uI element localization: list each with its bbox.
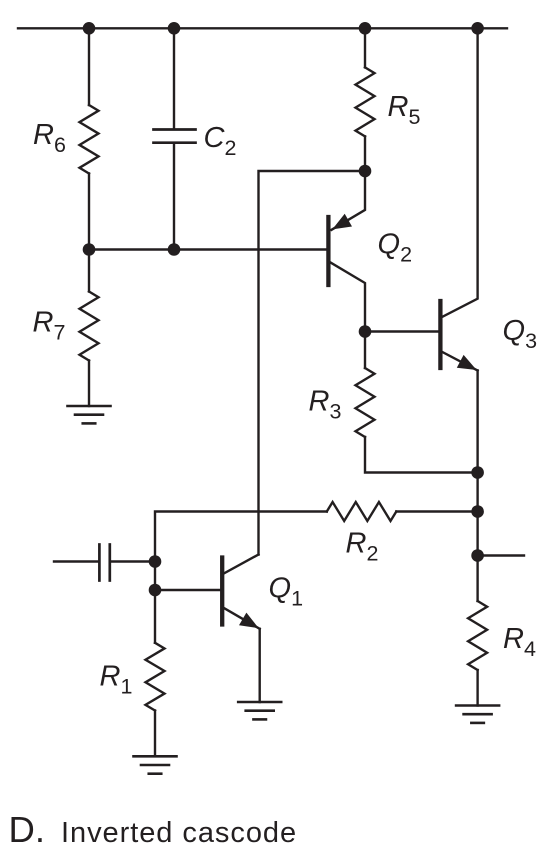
resistor R1 — [154, 590, 156, 643]
svg-text:D.: D. — [9, 809, 46, 850]
transistor Q2 (PNP) — [326, 217, 330, 285]
resistor R2 — [155, 512, 327, 562]
node input junction — [149, 555, 162, 568]
resistor R7 — [88, 250, 90, 292]
resistor R5 — [364, 28, 366, 67]
wire emitter node to R2 node — [476, 473, 478, 512]
wire R2 node to output node — [476, 512, 478, 556]
wire riser Q1 collector to R5 bottom — [259, 171, 366, 555]
wire rail to R6 — [88, 28, 90, 105]
capacitor input coupling — [54, 560, 98, 562]
wire R6 to base node — [88, 174, 90, 250]
capacitor C2 — [173, 28, 175, 128]
node C2-base junction — [168, 243, 181, 256]
resistor R3 — [364, 332, 366, 369]
node Q2 collector / Q3 base — [359, 325, 372, 338]
node R6-R7 junction — [83, 243, 96, 256]
ground R7 — [68, 405, 111, 408]
node Q1 base junction — [149, 584, 162, 597]
node R2-right junction — [471, 505, 484, 518]
node output junction — [471, 549, 484, 562]
ground Q1 emitter — [238, 701, 281, 704]
svg-text:Inverted cascode: Inverted cascode — [61, 817, 297, 849]
wire output stub — [478, 554, 524, 556]
node rail-R5 junction — [359, 22, 372, 35]
wire top supply rail — [18, 27, 507, 29]
resistor R4 — [476, 556, 478, 602]
transistor Q3 (NPN) — [438, 301, 442, 368]
resistor R6 — [80, 105, 99, 174]
node rail-right junction — [471, 22, 484, 35]
node R5-emitter junction — [359, 165, 372, 178]
wire Q3 base — [365, 330, 438, 332]
node rail-R6 junction — [83, 22, 96, 35]
ground R1 — [134, 755, 177, 758]
ground R4 — [456, 704, 499, 707]
wire Q2 base net — [89, 248, 326, 250]
wire input node to base node — [154, 562, 156, 591]
node R3-emitter junction — [471, 466, 484, 479]
node rail-C2 junction — [168, 22, 181, 35]
transistor Q1 (NPN) — [155, 589, 220, 591]
